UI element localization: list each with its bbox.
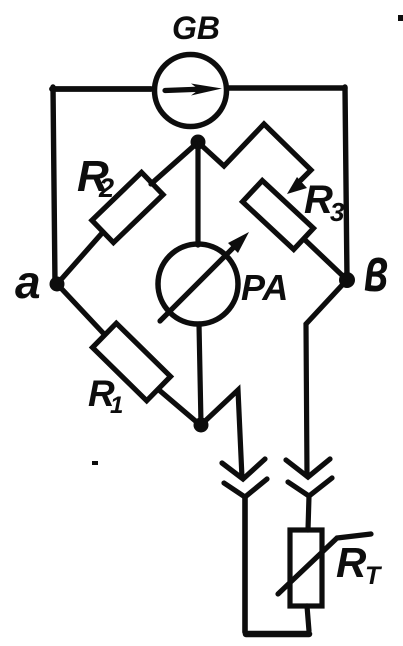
svg-text:1: 1 — [110, 392, 123, 419]
svg-text:R: R — [304, 178, 333, 222]
wire node a to R1 — [59, 286, 104, 334]
thermistor RT body — [290, 530, 322, 606]
break chevron arrowhead right upper — [286, 459, 330, 477]
wire bottom horizontal — [246, 631, 309, 638]
R3 wiper arrowhead — [287, 177, 307, 194]
node b — [339, 272, 355, 288]
wire meter PA to node d — [199, 324, 201, 424]
battery GB circle U1 — [155, 55, 227, 127]
wire top-right horizontal — [229, 85, 345, 90]
wire node b down-left then vertical — [306, 282, 345, 476]
svg-text:3: 3 — [330, 197, 345, 227]
svg-text:2: 2 — [98, 173, 114, 203]
speck left dash — [92, 461, 98, 465]
wire node c to R2 — [151, 144, 196, 184]
svg-text:R: R — [336, 539, 367, 586]
break chevron arrowhead left upper — [222, 459, 265, 479]
svg-text:в: в — [364, 236, 388, 305]
wire node c to meter PA — [195, 145, 200, 245]
svg-text:T: T — [365, 562, 383, 590]
resistor R3 body — [243, 181, 314, 250]
svg-text:GB: GB — [172, 10, 220, 46]
wire left vertical — [53, 87, 55, 284]
meter PA pointer arrow — [160, 232, 249, 321]
resistor R2 body — [92, 172, 163, 242]
break chevron right lower — [288, 478, 332, 496]
node c (top bridge node) — [191, 135, 206, 150]
wire RT bottom stub — [307, 606, 309, 631]
svg-text:a: a — [15, 256, 41, 308]
wire right vertical — [345, 87, 347, 279]
meter PA circle — [158, 244, 238, 324]
wire chevron down left long — [242, 497, 248, 632]
wire R3 to node b — [304, 239, 346, 279]
break chevron left lower — [224, 479, 267, 497]
svg-text:PA: PA — [241, 267, 288, 308]
wire R1 to node d — [159, 390, 199, 424]
wire R2 to node a — [58, 232, 103, 283]
node a — [50, 277, 65, 292]
thermistor RT diagonal stroke — [278, 534, 371, 594]
speck top-right — [398, 15, 403, 21]
node d (bottom bridge node) — [194, 418, 209, 433]
resistor R1 body — [92, 323, 170, 401]
wire node d up-right then down — [203, 390, 242, 478]
wire node c wiper zigzag to R3 — [200, 124, 311, 180]
battery GB arrow — [165, 84, 222, 96]
wire chevron to RT top — [308, 496, 309, 530]
wire top-left horizontal — [52, 86, 151, 92]
